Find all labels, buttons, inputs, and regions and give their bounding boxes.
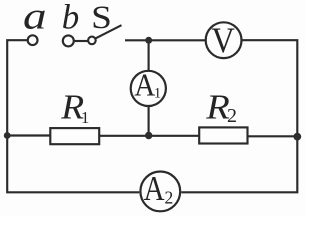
svg-text:A: A [144, 170, 165, 208]
svg-text:b: b [62, 0, 80, 37]
svg-text:1: 1 [154, 86, 162, 102]
svg-text:A: A [134, 67, 155, 103]
svg-text:1: 1 [81, 108, 90, 127]
svg-text:S: S [91, 0, 112, 35]
svg-text:a: a [23, 0, 47, 37]
svg-text:2: 2 [165, 188, 174, 208]
svg-text:V: V [211, 20, 235, 60]
svg-text:2: 2 [227, 105, 237, 127]
